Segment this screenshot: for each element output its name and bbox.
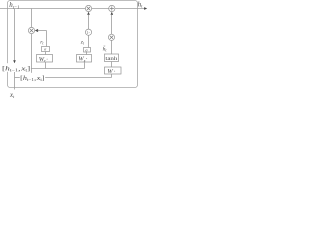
node multiply right bbox=[108, 34, 114, 40]
box W_r bbox=[37, 55, 53, 63]
wire sigma z to W_z bbox=[86, 52, 88, 55]
node add bbox=[109, 5, 115, 11]
svg-text:Wr ·: Wr · bbox=[39, 56, 48, 63]
wire h rail mid bbox=[92, 8, 109, 10]
svg-text:ht−1: ht−1 bbox=[9, 1, 19, 9]
svg-text:zt: zt bbox=[80, 40, 85, 46]
wire sigma r to W_r bbox=[45, 52, 47, 55]
svg-text:rt: rt bbox=[40, 40, 44, 46]
wire W down to concat rail 2 bbox=[111, 74, 113, 78]
svg-text:ht: ht bbox=[138, 0, 144, 8]
wire tanh to W bbox=[111, 62, 113, 68]
svg-text:Wz ·: Wz · bbox=[78, 56, 87, 63]
svg-text:tanh: tanh bbox=[105, 56, 117, 62]
sigma box r bbox=[42, 47, 50, 52]
wire z gate up with arrow into multiply top bbox=[87, 12, 90, 15]
wire x_t stub into concat 2 bbox=[15, 77, 21, 79]
svg-text:1-: 1- bbox=[86, 30, 90, 35]
label concat 1 [h_{t-1}, x_t] bbox=[1, 63, 31, 72]
wire W_r to concat rail 1 bbox=[45, 62, 47, 69]
sigma box z bbox=[84, 47, 91, 52]
wire W_z down to concat rail 1 bbox=[84, 62, 86, 69]
wire concat rail 1 bbox=[31, 68, 85, 70]
wire r_t feed into multiply left with arrow bbox=[35, 29, 38, 32]
node multiply left (r gate applied to h) bbox=[28, 27, 34, 33]
wire h branch down at x=14.5 with arrow into concat 1 bbox=[14, 9, 16, 61]
wire h branch down at x=31.5 upper part bbox=[31, 9, 33, 28]
wire multiply right down to tanh bbox=[111, 40, 113, 54]
wire x_t input vertical bbox=[14, 72, 16, 90]
svg-text:xt: xt bbox=[9, 92, 15, 99]
node multiply top bbox=[85, 5, 91, 11]
svg-text:W ·: W · bbox=[107, 68, 116, 75]
box W_z bbox=[77, 55, 92, 63]
wire h rail right with output arrow bbox=[115, 8, 145, 10]
GRU cell box bbox=[8, 1, 138, 88]
label concat 2 [h_{t-1}, x_t] bbox=[20, 73, 45, 82]
box tanh bbox=[105, 54, 119, 62]
svg-text:h̃t: h̃t bbox=[103, 45, 108, 52]
box W bbox=[105, 67, 122, 75]
wire one-minus down to sigma z bbox=[88, 35, 90, 47]
node one-minus bbox=[85, 29, 91, 35]
wire concat rail 2 bbox=[45, 77, 112, 79]
wire multiply left output down to concat 2 bbox=[31, 34, 33, 76]
wire h rail left bbox=[0, 8, 85, 10]
wire candidate up with arrow into add bbox=[111, 12, 114, 15]
